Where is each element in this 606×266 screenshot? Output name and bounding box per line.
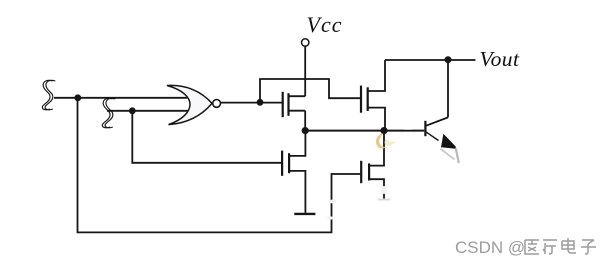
- watermark CSDN @医疗电子: [455, 238, 596, 257]
- 电: [562, 238, 576, 253]
- NOR gate U1 body: [167, 85, 212, 124]
- faint eraser smudges: [330, 200, 337, 204]
- ground (M3 source): [294, 213, 315, 215]
- svg-text:CSDN @: CSDN @: [455, 238, 525, 257]
- wire: input B to NOR gate bottom input: [107, 110, 189, 112]
- input A break symbol (squiggle): [42, 80, 55, 109]
- wire: input B down and right to M3 gate: [132, 111, 281, 163]
- 医: [525, 240, 539, 254]
- wire: input A to NOR gate top input: [54, 97, 187, 99]
- wire: Vcc down to M1 drain: [304, 46, 306, 96]
- node: Vout junction: [445, 56, 452, 63]
- wire: NOR output to M1 gate: [221, 102, 282, 104]
- 子: [581, 240, 596, 254]
- node: NOR output junction: [257, 99, 264, 106]
- node: junction input B / M3 gate: [129, 107, 136, 114]
- input B break symbol (squiggle): [102, 98, 115, 127]
- 疗: [543, 240, 557, 254]
- cursor artifact (black arrow + shadow): [441, 134, 456, 149]
- node: internal node line (base drive): [305, 130, 424, 132]
- ground (M4 source, faded): [378, 199, 390, 201]
- transistor M1 (top middle NMOS): [283, 92, 306, 131]
- white-out notch on base wire: [404, 127, 412, 129]
- NOR gate U1 output bubble: [213, 100, 221, 108]
- wire: left vertical + bottom rail + up to M4 gate: [78, 98, 361, 233]
- wire: NOR output up, across and down to M2 gate: [260, 79, 360, 102]
- transistor M2 (top right NMOS): [361, 60, 385, 131]
- node: junction M1/M3: [302, 127, 309, 134]
- transistor Q1 (BJT output): [425, 60, 448, 141]
- svg-text:Vout: Vout: [480, 47, 520, 71]
- node: junction input A / feedback: [74, 94, 81, 101]
- wire: M2 drain to Vout: [385, 59, 476, 61]
- svg-text:Vcc: Vcc: [307, 12, 343, 37]
- node: junction M2/M4: [380, 127, 387, 134]
- transistor M3 (bottom middle NMOS): [282, 131, 305, 213]
- highlight artifact (gold crescent): [376, 133, 387, 149]
- power Vcc terminal: [302, 39, 309, 46]
- transistor M4 (bottom right NMOS): [361, 131, 384, 199]
